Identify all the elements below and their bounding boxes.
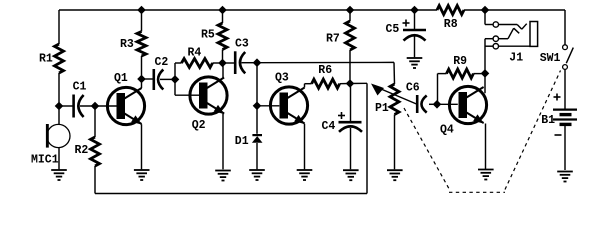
svg-text:J1: J1 [509,51,523,64]
svg-text:R7: R7 [326,32,340,45]
svg-text:C5: C5 [386,23,400,36]
svg-text:D1: D1 [235,135,249,148]
svg-text:R9: R9 [453,55,467,68]
svg-text:C4: C4 [322,120,336,133]
svg-text:R5: R5 [201,29,215,42]
svg-text:C3: C3 [235,38,249,51]
svg-text:B1: B1 [541,114,555,127]
svg-text:C1: C1 [73,81,87,94]
svg-text:R8: R8 [444,18,458,31]
svg-text:Q4: Q4 [440,124,454,137]
svg-text:R4: R4 [188,47,202,60]
svg-text:P1: P1 [375,102,389,115]
svg-text:Q3: Q3 [275,72,289,85]
svg-text:C2: C2 [155,56,169,69]
svg-text:R2: R2 [75,144,89,157]
svg-text:R3: R3 [120,38,134,51]
svg-text:Q2: Q2 [192,119,206,132]
svg-text:Q1: Q1 [114,72,128,85]
svg-text:SW1: SW1 [540,52,561,65]
svg-text:MIC1: MIC1 [31,153,59,166]
svg-text:R1: R1 [39,52,53,65]
svg-text:C6: C6 [406,81,420,94]
svg-text:R6: R6 [318,64,332,77]
